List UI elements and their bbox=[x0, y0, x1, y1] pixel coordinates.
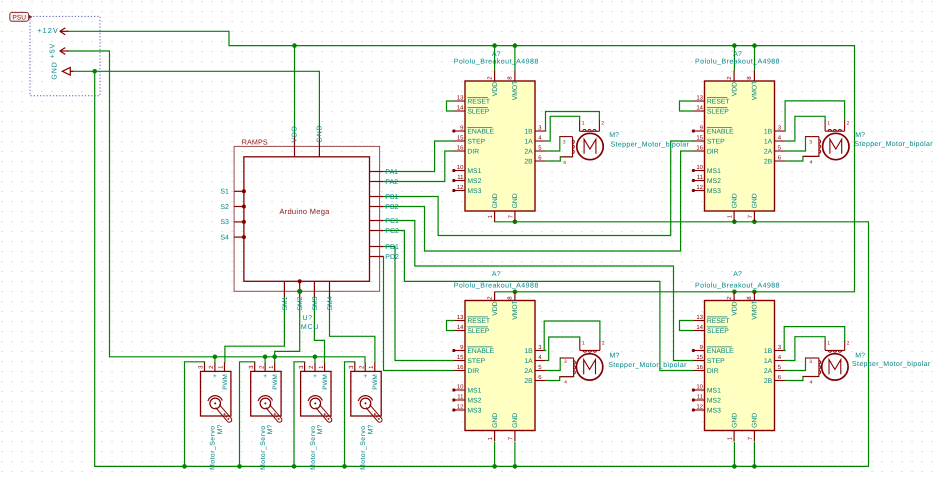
svg-text:12: 12 bbox=[457, 404, 464, 411]
svg-text:MS1: MS1 bbox=[467, 387, 481, 394]
svg-text:M?: M? bbox=[855, 132, 865, 139]
svg-text:S2: S2 bbox=[220, 204, 229, 211]
svg-text:Pololu_Breakout_A4988: Pololu_Breakout_A4988 bbox=[695, 281, 780, 289]
svg-text:2A: 2A bbox=[764, 368, 773, 375]
svg-text:2A: 2A bbox=[524, 148, 533, 155]
svg-text:1: 1 bbox=[827, 340, 830, 346]
svg-text:4: 4 bbox=[810, 380, 813, 386]
svg-text:4: 4 bbox=[563, 160, 566, 166]
svg-text:1A: 1A bbox=[524, 138, 533, 145]
svg-text:11: 11 bbox=[697, 174, 704, 181]
svg-text:MCU: MCU bbox=[301, 324, 319, 331]
svg-text:VMOT: VMOT bbox=[512, 81, 519, 101]
svg-text:+5V: +5V bbox=[49, 43, 56, 58]
svg-text:SM2: SM2 bbox=[297, 296, 304, 310]
svg-text:10: 10 bbox=[696, 164, 703, 171]
svg-text:GND: GND bbox=[317, 124, 324, 142]
svg-text:2B: 2B bbox=[764, 158, 773, 165]
svg-text:SLEEP: SLEEP bbox=[707, 108, 729, 115]
svg-text:Motor_Servo: Motor_Servo bbox=[260, 425, 267, 469]
svg-text:16: 16 bbox=[696, 364, 703, 371]
svg-text:STEP: STEP bbox=[707, 138, 725, 145]
svg-text:GND: GND bbox=[512, 193, 519, 208]
svg-text:Stepper_Motor_bipolar: Stepper_Motor_bipolar bbox=[608, 361, 687, 369]
svg-text:VMOT: VMOT bbox=[752, 81, 759, 101]
svg-text:DIR: DIR bbox=[467, 148, 479, 155]
svg-text:2: 2 bbox=[847, 340, 850, 346]
svg-text:DIR: DIR bbox=[467, 368, 479, 375]
svg-text:4: 4 bbox=[564, 380, 567, 386]
svg-text:PA2: PA2 bbox=[385, 179, 398, 186]
svg-text:3: 3 bbox=[809, 359, 812, 365]
svg-text:SLEEP: SLEEP bbox=[707, 328, 729, 335]
svg-text:1A: 1A bbox=[764, 138, 773, 145]
svg-text:STEP: STEP bbox=[467, 138, 485, 145]
svg-text:15: 15 bbox=[696, 354, 703, 361]
svg-text:M?: M? bbox=[610, 352, 620, 359]
svg-text:U?: U? bbox=[303, 315, 313, 322]
svg-text:2: 2 bbox=[602, 340, 605, 346]
svg-text:M?: M? bbox=[367, 425, 374, 435]
svg-text:12: 12 bbox=[457, 184, 464, 191]
svg-text:2B: 2B bbox=[764, 378, 773, 385]
svg-text:S4: S4 bbox=[220, 234, 229, 241]
svg-text:A?: A? bbox=[492, 51, 501, 58]
svg-text:15: 15 bbox=[457, 354, 464, 361]
svg-text:3: 3 bbox=[563, 139, 566, 145]
svg-text:MS3: MS3 bbox=[707, 407, 721, 414]
svg-text:2B: 2B bbox=[524, 158, 533, 165]
svg-text:RESET: RESET bbox=[707, 98, 730, 105]
svg-text:ENABLE: ENABLE bbox=[707, 348, 734, 355]
svg-text:PC2: PC2 bbox=[385, 228, 399, 235]
svg-text:GND: GND bbox=[731, 413, 738, 428]
svg-text:Motor_Servo: Motor_Servo bbox=[360, 425, 367, 469]
svg-text:MS2: MS2 bbox=[707, 178, 721, 185]
svg-text:+: + bbox=[313, 373, 317, 380]
svg-text:SM3: SM3 bbox=[312, 296, 319, 310]
svg-text:VDD: VDD bbox=[292, 125, 299, 142]
svg-text:1: 1 bbox=[827, 120, 830, 126]
svg-text:11: 11 bbox=[697, 394, 704, 401]
svg-text:13: 13 bbox=[457, 314, 464, 321]
svg-text:GND: GND bbox=[752, 413, 759, 428]
svg-text:Motor_Servo: Motor_Servo bbox=[210, 425, 217, 469]
svg-text:14: 14 bbox=[457, 324, 464, 331]
svg-text:SM1: SM1 bbox=[282, 296, 289, 310]
svg-text:PB2: PB2 bbox=[385, 204, 398, 211]
svg-text:A?: A? bbox=[492, 271, 501, 278]
svg-text:RESET: RESET bbox=[467, 318, 490, 325]
svg-text:Stepper_Motor_bipolar: Stepper_Motor_bipolar bbox=[611, 140, 690, 148]
svg-text:M?: M? bbox=[855, 352, 865, 359]
svg-text:VDD: VDD bbox=[731, 82, 738, 96]
svg-text:16: 16 bbox=[457, 145, 464, 152]
svg-text:14: 14 bbox=[696, 105, 703, 112]
svg-text:PD2: PD2 bbox=[385, 254, 399, 261]
svg-text:1: 1 bbox=[582, 340, 585, 346]
svg-text:Motor_Servo: Motor_Servo bbox=[310, 425, 317, 469]
svg-text:RESET: RESET bbox=[707, 318, 730, 325]
svg-text:16: 16 bbox=[457, 364, 464, 371]
svg-text:MS2: MS2 bbox=[707, 397, 721, 404]
svg-text:10: 10 bbox=[457, 384, 464, 391]
svg-text:A?: A? bbox=[733, 271, 742, 278]
svg-text:13: 13 bbox=[696, 314, 703, 321]
svg-text:15: 15 bbox=[457, 135, 464, 142]
svg-text:A?: A? bbox=[733, 51, 742, 58]
svg-text:16: 16 bbox=[696, 145, 703, 152]
svg-text:14: 14 bbox=[457, 105, 464, 112]
svg-text:DIR: DIR bbox=[707, 148, 719, 155]
svg-text:MS2: MS2 bbox=[467, 397, 481, 404]
svg-text:Stepper_Motor_bipolar: Stepper_Motor_bipolar bbox=[852, 360, 931, 368]
svg-text:+: + bbox=[363, 373, 367, 380]
svg-text:PWM: PWM bbox=[222, 374, 229, 390]
svg-text:15: 15 bbox=[696, 135, 703, 142]
svg-text:M?: M? bbox=[217, 425, 224, 435]
svg-text:1B: 1B bbox=[764, 128, 773, 135]
svg-text:14: 14 bbox=[696, 324, 703, 331]
svg-text:1B: 1B bbox=[524, 348, 533, 355]
svg-text:SM4: SM4 bbox=[327, 296, 334, 310]
svg-text:Pololu_Breakout_A4988: Pololu_Breakout_A4988 bbox=[454, 57, 539, 65]
svg-text:GND: GND bbox=[492, 413, 499, 428]
svg-text:MS1: MS1 bbox=[707, 168, 721, 175]
svg-text:VMOT: VMOT bbox=[752, 300, 759, 320]
svg-text:ENABLE: ENABLE bbox=[467, 128, 494, 135]
svg-text:SLEEP: SLEEP bbox=[467, 108, 489, 115]
svg-text:ENABLE: ENABLE bbox=[467, 348, 494, 355]
svg-text:ENABLE: ENABLE bbox=[707, 128, 734, 135]
svg-text:M?: M? bbox=[609, 132, 619, 139]
svg-text:RAMPS: RAMPS bbox=[242, 137, 268, 146]
svg-text:M?: M? bbox=[317, 425, 324, 435]
svg-text:11: 11 bbox=[457, 394, 464, 401]
svg-text:12: 12 bbox=[696, 404, 703, 411]
svg-text:M?: M? bbox=[267, 425, 274, 435]
svg-text:2B: 2B bbox=[524, 378, 533, 385]
svg-text:GND: GND bbox=[512, 413, 519, 428]
svg-text:VDD: VDD bbox=[731, 301, 738, 315]
svg-text:1A: 1A bbox=[764, 358, 773, 365]
svg-text:+: + bbox=[263, 373, 267, 380]
svg-text:12: 12 bbox=[696, 184, 703, 191]
svg-text:1A: 1A bbox=[524, 358, 533, 365]
svg-text:10: 10 bbox=[457, 164, 464, 171]
svg-text:PWM: PWM bbox=[372, 374, 379, 390]
svg-text:S3: S3 bbox=[220, 219, 229, 226]
svg-text:2: 2 bbox=[601, 120, 604, 126]
svg-text:PWM: PWM bbox=[322, 374, 329, 390]
svg-text:2A: 2A bbox=[524, 368, 533, 375]
svg-text:STEP: STEP bbox=[707, 358, 725, 365]
svg-text:3: 3 bbox=[809, 139, 812, 145]
svg-text:13: 13 bbox=[457, 95, 464, 102]
svg-text:Pololu_Breakout_A4988: Pololu_Breakout_A4988 bbox=[454, 281, 539, 289]
svg-text:MS1: MS1 bbox=[707, 387, 721, 394]
svg-text:3: 3 bbox=[564, 359, 567, 365]
svg-text:MS3: MS3 bbox=[467, 407, 481, 414]
svg-text:PWM: PWM bbox=[272, 374, 279, 390]
svg-text:+: + bbox=[213, 373, 217, 380]
svg-text:2A: 2A bbox=[764, 148, 773, 155]
svg-text:DIR: DIR bbox=[707, 368, 719, 375]
svg-text:Arduino Mega: Arduino Mega bbox=[279, 207, 330, 216]
svg-text:+12V: +12V bbox=[37, 26, 59, 35]
svg-text:PC1: PC1 bbox=[385, 218, 399, 225]
svg-text:10: 10 bbox=[696, 384, 703, 391]
svg-text:VDD: VDD bbox=[492, 82, 499, 96]
svg-text:S1: S1 bbox=[220, 189, 229, 196]
svg-text:PB1: PB1 bbox=[385, 194, 398, 201]
svg-text:1B: 1B bbox=[524, 128, 533, 135]
svg-text:MS2: MS2 bbox=[467, 178, 481, 185]
svg-text:GND: GND bbox=[492, 193, 499, 208]
svg-text:PD1: PD1 bbox=[385, 244, 399, 251]
svg-text:Stepper_Motor_bipolar: Stepper_Motor_bipolar bbox=[854, 140, 933, 148]
svg-text:VMOT: VMOT bbox=[512, 300, 519, 320]
svg-text:MS3: MS3 bbox=[707, 188, 721, 195]
svg-text:4: 4 bbox=[810, 159, 813, 165]
svg-text:MS3: MS3 bbox=[467, 188, 481, 195]
svg-text:1: 1 bbox=[582, 120, 585, 126]
svg-text:Pololu_Breakout_A4988: Pololu_Breakout_A4988 bbox=[695, 57, 780, 65]
svg-text:STEP: STEP bbox=[467, 358, 485, 365]
svg-text:GND: GND bbox=[752, 193, 759, 208]
svg-text:PSU: PSU bbox=[12, 15, 26, 22]
svg-text:SLEEP: SLEEP bbox=[467, 328, 489, 335]
svg-text:PA1: PA1 bbox=[385, 169, 398, 176]
svg-text:GND: GND bbox=[731, 193, 738, 208]
svg-text:MS1: MS1 bbox=[467, 168, 481, 175]
svg-text:VDD: VDD bbox=[492, 301, 499, 315]
svg-text:RESET: RESET bbox=[467, 98, 490, 105]
svg-text:1B: 1B bbox=[764, 348, 773, 355]
svg-text:13: 13 bbox=[696, 95, 703, 102]
svg-text:2: 2 bbox=[847, 120, 850, 126]
svg-text:11: 11 bbox=[457, 174, 464, 181]
svg-text:GND: GND bbox=[52, 61, 59, 79]
